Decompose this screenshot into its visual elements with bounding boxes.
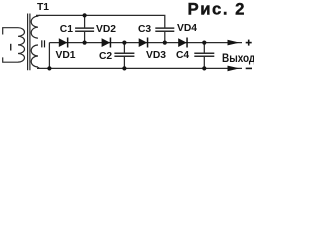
svg-text:C2: C2 — [99, 51, 112, 62]
svg-text:VD3: VD3 — [146, 50, 166, 61]
svg-text:C1: C1 — [60, 24, 73, 35]
svg-text:Выход: Выход — [222, 52, 254, 65]
svg-text:C3: C3 — [138, 24, 151, 35]
svg-text:Рис. 2: Рис. 2 — [188, 0, 247, 18]
svg-text:C4: C4 — [176, 50, 189, 61]
svg-text:VD1: VD1 — [56, 50, 76, 61]
svg-text:Т1: Т1 — [37, 2, 49, 13]
svg-text:VD2: VD2 — [96, 24, 116, 35]
svg-text:VD4: VD4 — [177, 23, 197, 34]
